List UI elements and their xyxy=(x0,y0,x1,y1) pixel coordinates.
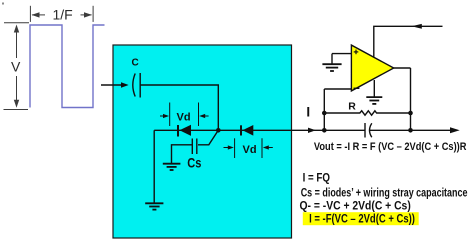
svg-text:Q- = -VC + 2Vd(C + Cs): Q- = -VC + 2Vd(C + Cs) xyxy=(300,200,412,213)
svg-text:V: V xyxy=(11,59,21,75)
svg-text:R: R xyxy=(348,100,356,112)
svg-text:C: C xyxy=(132,58,139,69)
svg-text:Cs: Cs xyxy=(187,155,201,170)
svg-text:Cs = diodes’ + wiring stray ca: Cs = diodes’ + wiring stray capacitance xyxy=(301,187,468,199)
svg-text:I: I xyxy=(306,104,310,119)
svg-text:1/F: 1/F xyxy=(53,7,73,23)
svg-text:Vout = -I R = F (VC – 2Vd(C +: Vout = -I R = F (VC – 2Vd(C + Cs))R xyxy=(314,141,467,153)
svg-text:Vd: Vd xyxy=(243,144,257,156)
svg-text:I = -F(VC – 2Vd(C + Cs)): I = -F(VC – 2Vd(C + Cs)) xyxy=(309,213,415,226)
svg-text:I = FQ: I = FQ xyxy=(303,172,330,185)
svg-text:Vd: Vd xyxy=(177,112,191,124)
